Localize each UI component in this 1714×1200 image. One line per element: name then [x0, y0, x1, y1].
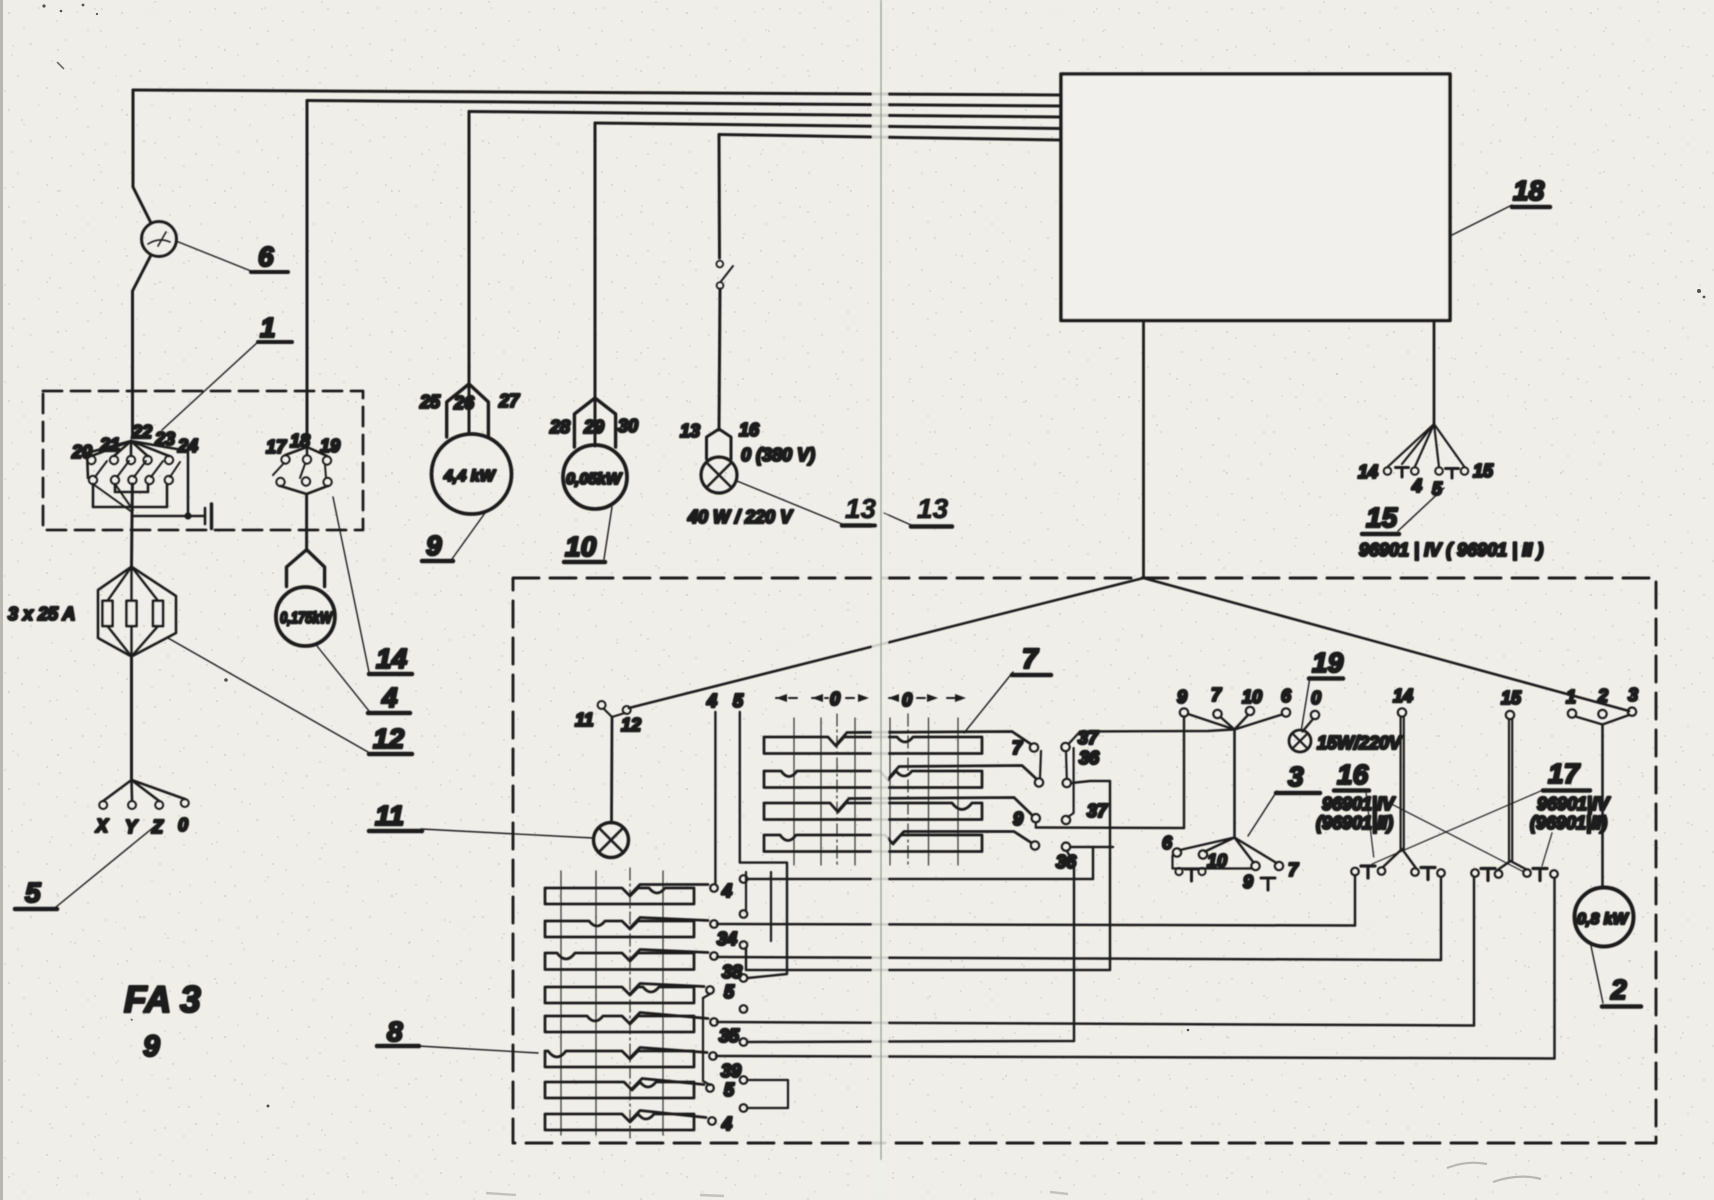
wire: box 18 right output down	[1433, 321, 1436, 425]
svg-text:9: 9	[426, 530, 442, 561]
svg-text:16: 16	[1337, 759, 1369, 790]
svg-text:22: 22	[131, 422, 152, 442]
svg-text:14: 14	[1393, 686, 1413, 706]
svg-text:0: 0	[830, 689, 840, 709]
link contact37 to row2	[1065, 751, 1068, 779]
label 15	[1362, 502, 1399, 534]
motor M10 connector arch	[574, 398, 615, 447]
S14 terminal numbers	[266, 431, 340, 457]
svg-text:38: 38	[722, 962, 742, 982]
motor M9 connector arch	[447, 384, 489, 437]
rotary switch S14 feeder	[306, 101, 309, 444]
svg-text:2: 2	[1597, 686, 1608, 706]
rotary switch 3 top terminals	[1180, 707, 1319, 719]
svg-text:8: 8	[387, 1016, 403, 1047]
cam8 bar row 6	[545, 1051, 694, 1067]
row8 wire	[630, 1111, 706, 1122]
svg-text:25: 25	[419, 392, 441, 412]
svg-text:6: 6	[258, 241, 274, 272]
wire: feeder below meter	[133, 255, 152, 437]
motor M9 (4,4 kW)	[432, 434, 512, 514]
fuse wires	[108, 567, 159, 601]
wire through arch M9	[468, 384, 471, 434]
ground tap wire	[132, 515, 204, 517]
svg-text:4: 4	[721, 881, 732, 901]
wire: to signal lamp H11	[610, 717, 613, 823]
svg-text:96901|IV: 96901|IV	[1537, 794, 1611, 814]
label 16 leaders	[1366, 792, 1374, 857]
svg-text:0: 0	[902, 690, 912, 710]
svg-text:9: 9	[1013, 809, 1023, 829]
svg-text:28: 28	[549, 417, 570, 437]
label 10	[564, 531, 605, 562]
label 19	[1309, 647, 1344, 679]
wire 37 upper rail	[1068, 732, 1080, 818]
row4 wire	[630, 984, 704, 995]
svg-text:7: 7	[1022, 643, 1039, 674]
label 2	[1602, 974, 1641, 1007]
svg-text:FA 3: FA 3	[124, 979, 201, 1020]
cam7 contact 9	[1032, 814, 1040, 822]
cam7 contact 37 upper	[1061, 743, 1069, 751]
junction dot	[184, 512, 191, 519]
row3 wire	[630, 950, 708, 961]
row4 contact wire	[893, 832, 1031, 844]
wire 957 rail	[717, 878, 1441, 961]
svg-text:15: 15	[1473, 461, 1494, 481]
wire row4 right contact	[1071, 846, 1114, 848]
svg-text:7: 7	[1211, 685, 1222, 705]
wire 879 rail	[747, 847, 1094, 879]
svg-text:10: 10	[1242, 687, 1262, 707]
svg-text:96901 | IV ( 96901 | II ): 96901 | IV ( 96901 | II )	[1359, 540, 1543, 560]
svg-text:4: 4	[1411, 476, 1422, 496]
cam8 bar row 7	[545, 1082, 694, 1098]
wire 15 fork	[1498, 861, 1527, 870]
wire: roof right diagonal	[1144, 578, 1630, 711]
cam7 bar row 4	[764, 835, 982, 852]
vertical link r1-r2	[745, 872, 747, 910]
cam7 contact 7	[1030, 743, 1038, 751]
label 5	[15, 877, 57, 909]
wire 1022 rail	[717, 878, 1474, 1026]
meter P (item 6)	[142, 222, 177, 257]
svg-text:0,05kW: 0,05kW	[566, 471, 623, 488]
label 8 leader	[418, 1046, 538, 1053]
wire: feeder through S1 to ground tap	[130, 484, 134, 566]
wire through arch M10	[594, 398, 597, 446]
svg-text:3 x 25 A: 3 x 25 A	[8, 604, 75, 624]
cam7 bar row 2	[764, 771, 982, 788]
S1 outer frame left	[87, 441, 131, 478]
terminals 1 2 3	[1568, 708, 1636, 719]
svg-text:17: 17	[1548, 758, 1581, 789]
control unit box (item 18)	[1061, 74, 1450, 321]
T group 3	[1471, 869, 1502, 881]
svg-text:12: 12	[621, 715, 641, 735]
label 16	[1334, 759, 1369, 791]
terminal X	[99, 801, 107, 809]
svg-text:40 W / 220 V: 40 W / 220 V	[687, 507, 794, 527]
wire 15 double line	[1509, 719, 1512, 861]
wire: drop to motor M10	[594, 123, 597, 398]
bracket between 5 terminals	[703, 994, 710, 1085]
motor M2 (0,8 kW)	[1575, 888, 1634, 947]
T mark lower right	[1261, 878, 1275, 890]
paper crease stripe	[872, 0, 888, 1200]
svg-text:23: 23	[154, 429, 175, 449]
cam8 bar row 8	[545, 1114, 694, 1130]
cam switch 7 position arrows	[776, 694, 966, 702]
terminal 0 to lamp 19	[1303, 719, 1314, 732]
S1 outer frame right	[131, 441, 188, 516]
svg-text:9: 9	[1243, 872, 1253, 892]
S1 upper contacts	[87, 456, 95, 464]
fuse F2	[127, 601, 137, 626]
svg-text:19: 19	[320, 436, 340, 456]
row7 wire	[632, 1079, 704, 1090]
terminal V wires	[1576, 715, 1630, 725]
svg-text:3: 3	[1628, 685, 1638, 705]
svg-text:3: 3	[1288, 761, 1304, 792]
terminals 11/12	[598, 701, 631, 717]
switch 3 lower bracket	[1173, 856, 1252, 869]
switch 3 lower numbers	[1162, 833, 1299, 892]
leader to label 14	[333, 497, 369, 672]
riser from contact 9 to top terminal	[1183, 717, 1185, 829]
wire: drop to motor M9	[468, 112, 471, 385]
label 11 leader	[421, 829, 593, 838]
svg-text:27: 27	[498, 391, 520, 411]
svg-text:0 (380 V): 0 (380 V)	[741, 445, 815, 465]
M9 pin numbers	[419, 391, 520, 413]
bus line L4	[595, 123, 1061, 129]
svg-text:10: 10	[1207, 851, 1227, 871]
S1 lower contacts	[89, 476, 97, 484]
paper crease line	[880, 0, 882, 1160]
H13 pin numbers	[680, 420, 760, 441]
cam8 bar row 1	[545, 888, 694, 904]
svg-text:15: 15	[1366, 502, 1398, 533]
svg-text:6: 6	[1162, 833, 1173, 853]
S1 crossing links	[93, 484, 132, 512]
cam8 grid lines	[561, 868, 663, 1138]
wire: fuse output down	[130, 657, 133, 781]
svg-text:0,175kW: 0,175kW	[280, 610, 334, 627]
leader M12 to label 4	[317, 646, 369, 711]
wire rail 828 to switch3	[1036, 826, 1184, 829]
switch in lamp circuit	[716, 261, 733, 289]
bus line L5	[719, 135, 1061, 141]
link contact7 to row2	[1040, 751, 1041, 778]
svg-text:13: 13	[680, 421, 700, 441]
row5 wire	[630, 1013, 708, 1024]
S14 blades	[273, 463, 284, 475]
svg-text:21: 21	[99, 435, 120, 455]
svg-text:0,8 kW: 0,8 kW	[1577, 911, 1630, 928]
fuse F1	[103, 601, 113, 626]
leader crease to label 13 second	[884, 513, 911, 525]
svg-text:37: 37	[1078, 728, 1099, 748]
lamp H13 cap	[707, 429, 732, 459]
svg-text:36: 36	[1079, 748, 1100, 768]
dashed enclosure item 1	[43, 391, 363, 530]
svg-text:9: 9	[143, 1030, 160, 1063]
label 12	[369, 723, 412, 754]
svg-text:5: 5	[25, 877, 41, 908]
svg-text:19: 19	[1312, 647, 1344, 678]
svg-text:15W/220V: 15W/220V	[1317, 733, 1403, 753]
svg-text:35: 35	[719, 1026, 740, 1046]
fuse F3	[153, 601, 163, 626]
signal lamp 19	[1289, 730, 1311, 752]
svg-text:4: 4	[706, 691, 717, 711]
svg-text:Y: Y	[125, 817, 139, 837]
label 3	[1276, 761, 1320, 793]
label 19 leader	[1302, 677, 1311, 729]
terminal 15 top	[1506, 711, 1514, 719]
svg-text:0: 0	[178, 815, 188, 835]
cam7 grid lines	[794, 714, 958, 868]
bus line L3	[469, 112, 1061, 118]
terminal 14 top	[1398, 708, 1406, 716]
svg-text:20: 20	[71, 442, 92, 462]
wire 1041 rail	[747, 862, 1074, 1042]
label 17	[1543, 758, 1590, 791]
svg-text:96901|IV: 96901|IV	[1322, 794, 1396, 814]
T group 4	[1523, 869, 1558, 881]
scan left border	[0, 0, 3, 1200]
svg-text:30: 30	[618, 416, 638, 436]
rotary switch S1: fan from hub	[87, 441, 188, 516]
S1 blades	[95, 461, 107, 477]
switch 3 top terminal numbers	[1177, 685, 1321, 708]
wire 970 rail	[746, 781, 1110, 970]
terminal letters	[95, 815, 188, 837]
svg-text:34: 34	[717, 929, 737, 949]
wire 924 rail	[717, 876, 1355, 926]
rotary switch S14	[273, 447, 332, 494]
wire: box 18 left output down to panel	[1142, 321, 1145, 579]
label 7 leader	[964, 672, 1013, 733]
connector 15 fan	[1388, 424, 1465, 467]
leader lamp to label 13	[737, 481, 842, 524]
cam8 bar row 5	[545, 1016, 694, 1032]
wire 14 double line	[1401, 717, 1404, 850]
svg-text:5: 5	[724, 1080, 735, 1100]
svg-text:(96901|II): (96901|II)	[1530, 813, 1607, 833]
label 14	[369, 643, 412, 674]
wire row4 left contact drop	[1067, 851, 1074, 864]
cam8 bar row 2	[545, 921, 694, 937]
cam8 left terminals	[706, 884, 718, 1125]
cam7 contact numbers	[1012, 728, 1108, 872]
row2 contact wire	[888, 766, 1036, 780]
wire to motor M2	[1601, 725, 1604, 888]
label 13 (first)	[842, 493, 877, 526]
svg-text:2: 2	[1610, 974, 1627, 1005]
lamp H13	[701, 457, 737, 493]
label 15 leader	[1398, 488, 1444, 531]
svg-text:13: 13	[845, 493, 877, 524]
svg-text:12: 12	[373, 723, 405, 754]
link rows 7-8 right	[747, 1080, 788, 1108]
svg-text:14: 14	[376, 643, 408, 674]
svg-text:15: 15	[1501, 688, 1522, 708]
label 7	[1012, 643, 1051, 675]
label 13 (second)	[911, 493, 952, 527]
svg-text:11: 11	[375, 800, 404, 831]
wire 14 fork	[1383, 849, 1416, 868]
chassis ground symbol	[204, 508, 207, 524]
svg-text:6: 6	[1281, 686, 1292, 706]
connector 15 pin numbers	[1358, 461, 1494, 499]
label 6	[251, 241, 288, 272]
wire: drop to lamp H13	[718, 135, 722, 259]
label 17 leaders	[1372, 790, 1543, 864]
cam7 contact 37 lower	[1062, 816, 1070, 824]
control panel dashed enclosure	[513, 578, 1656, 1143]
svg-text:4: 4	[381, 682, 398, 713]
terminal numbers 11 12	[575, 710, 641, 735]
svg-text:1: 1	[1566, 687, 1576, 707]
svg-text:10: 10	[565, 531, 597, 562]
T group 1	[1351, 866, 1385, 878]
svg-text:11: 11	[575, 710, 594, 730]
svg-text:0: 0	[1311, 688, 1321, 708]
svg-text:5: 5	[724, 982, 735, 1002]
wire: switch to lamp cap	[719, 289, 720, 430]
terminal numbers 1 2 3	[1566, 685, 1638, 707]
bus line L1	[133, 90, 1061, 95]
T mark lower left	[1185, 869, 1198, 881]
row2 wire	[630, 918, 708, 929]
row3 contact wire	[838, 798, 1032, 815]
switch 3 shaft	[1233, 730, 1236, 838]
label 4	[368, 682, 410, 713]
svg-text:29: 29	[583, 417, 604, 437]
svg-text:13: 13	[917, 493, 949, 524]
svg-text:5: 5	[733, 691, 744, 711]
wire 1058 rail	[716, 879, 1555, 1059]
cam7 bar row 1	[764, 737, 982, 754]
bus line L2	[307, 101, 1061, 107]
row6 wire	[630, 1048, 707, 1059]
svg-text:7: 7	[1288, 860, 1299, 880]
M10 pin numbers	[549, 416, 638, 437]
label 5 leader	[56, 822, 160, 907]
svg-text:26: 26	[453, 393, 475, 413]
bracket contacts	[1175, 868, 1182, 875]
svg-text:4: 4	[721, 1114, 732, 1134]
label 3 leader	[1248, 791, 1277, 836]
switch 3 upper fan	[1188, 714, 1282, 730]
motor M12 (0,175 kW)	[276, 587, 335, 646]
svg-text:5: 5	[1432, 479, 1443, 499]
label 18	[1512, 175, 1550, 207]
svg-text:37: 37	[1087, 801, 1108, 821]
svg-text:18: 18	[1513, 175, 1545, 206]
terminal 0	[181, 799, 189, 807]
row1 wire	[630, 885, 708, 896]
label 9 leader	[452, 513, 485, 559]
svg-text:16: 16	[739, 420, 760, 440]
wire core 5	[740, 712, 787, 978]
motor M10 (0,05 kW)	[563, 445, 627, 509]
wire: S14 to motor M12	[305, 494, 308, 551]
label 2 leader	[1591, 946, 1603, 1003]
cam8 right terminals	[740, 875, 748, 1112]
label 11	[369, 800, 422, 831]
row1 contact wire	[836, 732, 1030, 746]
svg-text:9: 9	[1177, 687, 1187, 707]
cam7 contact pair row2	[1035, 778, 1043, 786]
svg-text:7: 7	[1012, 738, 1023, 758]
svg-text:1: 1	[260, 312, 276, 343]
label 10 leader	[604, 507, 612, 559]
terminal Z	[155, 801, 163, 809]
label 9	[422, 530, 453, 561]
label 18 leader	[1450, 205, 1512, 236]
svg-text:39: 39	[721, 1061, 741, 1081]
wire: main feeder vertical upper	[133, 90, 151, 223]
wire core 4	[714, 712, 716, 884]
wire: roof left diagonal	[629, 578, 1144, 708]
S1 terminal numbers	[71, 422, 198, 462]
svg-text:14: 14	[1358, 462, 1378, 482]
cam8 bar row 4	[545, 987, 694, 1003]
svg-text:X: X	[95, 816, 109, 836]
S1 lower frame	[93, 484, 167, 507]
svg-text:17: 17	[266, 437, 287, 457]
signal lamp H11	[594, 823, 629, 858]
cam8 wire numbers	[717, 881, 742, 1134]
S14 bottom V	[281, 486, 307, 494]
switch 3 lower fan	[1180, 838, 1277, 864]
label 1 leader	[162, 341, 259, 430]
wire to rotary switch 3	[1080, 730, 1233, 732]
label 8	[377, 1016, 419, 1047]
svg-text:4,4 kW: 4,4 kW	[443, 468, 497, 485]
fuse group feeder node	[98, 567, 176, 657]
contact 9 stub to rail	[1035, 822, 1037, 827]
leader fuses to label 12	[168, 638, 368, 752]
supply fan-out	[103, 780, 185, 801]
label 1	[258, 312, 292, 343]
svg-text:18: 18	[290, 431, 310, 451]
T group 2	[1411, 868, 1445, 880]
cam8 bar row 3	[545, 953, 694, 970]
label 6 leader	[176, 241, 251, 271]
svg-text:24: 24	[177, 436, 198, 456]
cam7 bar row 3	[764, 803, 982, 820]
cam7 contact pair row4	[1031, 841, 1039, 849]
connector 15 terminals	[1384, 467, 1469, 478]
switch 3 lower contacts	[1173, 848, 1283, 870]
vertical link r2-r3	[770, 872, 772, 941]
svg-text:(96901|II): (96901|II)	[1316, 813, 1393, 833]
terminal Y	[128, 801, 136, 809]
motor M12 connector arch	[287, 550, 325, 587]
